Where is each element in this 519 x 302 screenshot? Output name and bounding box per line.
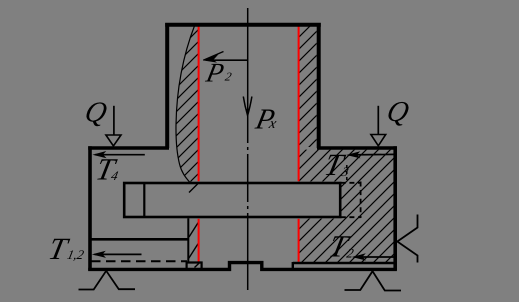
rod: inner vertical line bbox=[143, 183, 145, 217]
hatch: big right block (minus rod) bbox=[299, 150, 394, 263]
arrow Px tip bbox=[246, 109, 249, 117]
arrow T12 shaft bbox=[95, 253, 142, 255]
body: left shoulder bbox=[88, 146, 169, 150]
arrow P2 shaft bbox=[206, 59, 248, 61]
arrow P2 head bbox=[203, 54, 219, 62]
red bore line right (lower) bbox=[298, 219, 300, 262]
body: bottom edge with center notch bbox=[88, 263, 397, 270]
clamp symbol at right wall bbox=[397, 215, 417, 263]
hatch: left foot segment bbox=[195, 262, 201, 268]
arrow Q left open triangle bbox=[106, 135, 121, 146]
body: top box left wall bbox=[165, 23, 169, 148]
arrow T12 head bbox=[92, 251, 106, 258]
arrow T3 head bbox=[346, 151, 360, 158]
arrow Q right shaft bbox=[377, 106, 379, 135]
body: bottom-right seat strip top line bbox=[293, 262, 395, 265]
hidden dashed line above bottom bbox=[91, 260, 187, 262]
body: left wall bbox=[88, 146, 92, 270]
body: top box top edge bbox=[165, 23, 321, 27]
chamber floor line bbox=[91, 238, 189, 241]
hatch: upper-right bore wall column bbox=[299, 26, 317, 147]
right support symbol bbox=[345, 271, 402, 290]
red bore line right (upper) bbox=[298, 27, 300, 182]
skirt left edge below rod bbox=[187, 218, 189, 262]
body: right shoulder bbox=[317, 146, 397, 150]
arrow Px head (open V on centerline) bbox=[243, 97, 252, 116]
hatch: upper-left land between curve and red bore line bbox=[176, 26, 199, 182]
body: seat strip left step bbox=[292, 262, 294, 269]
arrow Q left shaft bbox=[113, 106, 115, 135]
red bore line left (upper) bbox=[198, 27, 200, 182]
small dashed leader under T3 bbox=[346, 165, 348, 181]
arrow P2 upper barb bbox=[203, 52, 223, 61]
hatch: stray segment below rod top bbox=[189, 184, 198, 193]
arrow T4 head bbox=[92, 151, 106, 158]
left foot block bbox=[187, 263, 202, 269]
centerline (vertical dash-dot axis) bbox=[247, 8, 249, 290]
arrow Q right open triangle bbox=[371, 135, 386, 146]
left support symbol bbox=[79, 271, 136, 290]
red bore line left (lower) bbox=[198, 219, 200, 262]
dashed hidden rod extension box bbox=[341, 182, 361, 219]
curve: spool land left profile bbox=[176, 25, 195, 183]
body: right wall bbox=[393, 146, 397, 270]
hatch: left skirt below rod (2 segments) bbox=[189, 223, 199, 259]
arrow T2 shaft bbox=[355, 256, 397, 258]
arrow T4 shaft bbox=[95, 154, 145, 156]
arrow T2 head bbox=[352, 253, 366, 260]
body: top box right wall bbox=[317, 23, 321, 148]
arrow T3 shaft bbox=[349, 153, 395, 156]
rod: outline bbox=[124, 183, 340, 217]
